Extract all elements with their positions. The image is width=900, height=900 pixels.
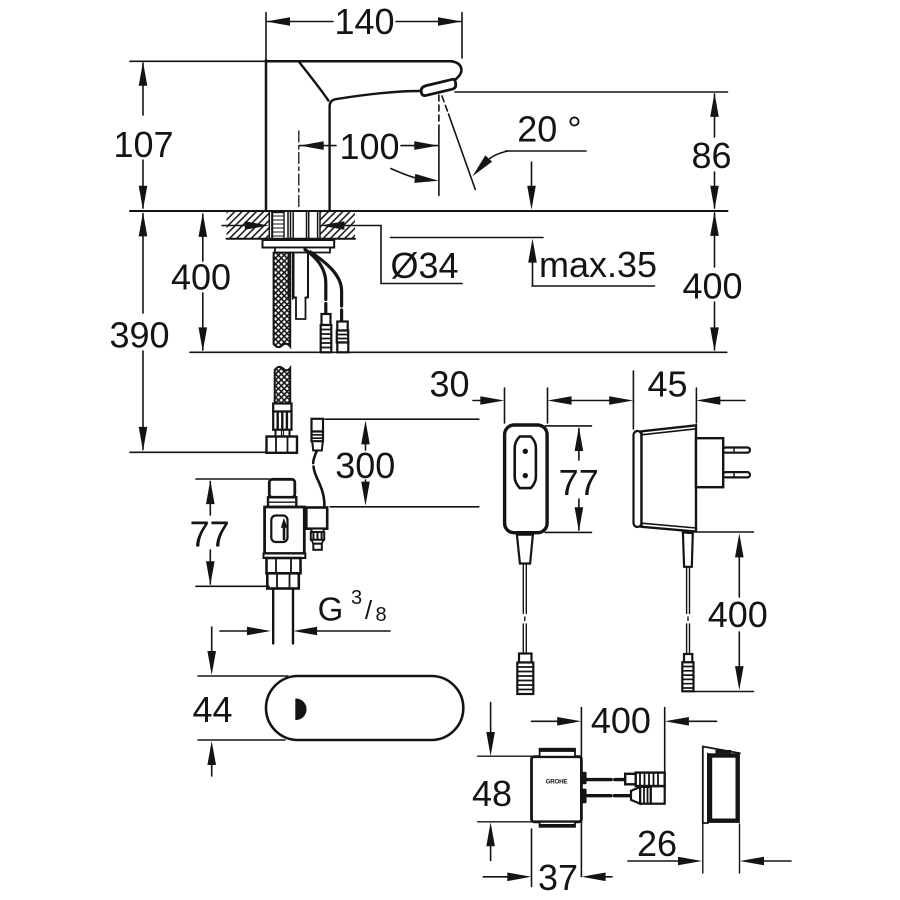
dimension 400 plug top reference xyxy=(697,531,754,533)
upper braided hose xyxy=(274,253,291,348)
box cable lower connector xyxy=(631,787,640,804)
cable connector right xyxy=(337,322,347,331)
dimension 77 top reference line xyxy=(196,478,269,480)
valve collar xyxy=(268,497,296,507)
faucet shank tube walls in hole xyxy=(268,212,270,239)
euro socket recess xyxy=(515,437,536,489)
faucet stem centerline xyxy=(298,131,300,210)
dimension 77 plug arrow down xyxy=(575,507,584,531)
dimension 86 line xyxy=(714,94,716,137)
dimension 140 extension line left xyxy=(265,13,267,60)
dimension 86 arrow up xyxy=(710,93,719,117)
dimension 30 line and arrows xyxy=(473,400,481,402)
20 degree leader arrow xyxy=(473,155,493,176)
lower braided hose xyxy=(275,367,291,404)
cable stub upper xyxy=(581,772,586,785)
dimension 37 line left xyxy=(483,876,508,878)
svg-text:390: 390 xyxy=(109,315,169,356)
valve main body xyxy=(265,507,305,554)
hose length reference line xyxy=(130,451,267,453)
valve adjuster knurl xyxy=(311,532,324,540)
box cable upper xyxy=(587,778,612,781)
power supply side view face plate xyxy=(634,431,642,527)
max35 upper arrow xyxy=(527,186,536,210)
side view cable neck xyxy=(683,532,693,566)
dimension 77 line xyxy=(209,482,211,516)
escutcheon oval top view xyxy=(266,676,463,740)
dimension 26 extension lines xyxy=(702,824,704,873)
dimension 140 arrow right xyxy=(438,17,462,26)
hose fitting neck xyxy=(276,430,290,437)
angle arc with arrow xyxy=(391,169,425,181)
side view cable xyxy=(687,567,690,614)
faucet body left edge xyxy=(265,60,268,211)
svg-text:30: 30 xyxy=(429,364,469,405)
dimension 77 plug bottom reference xyxy=(545,531,591,533)
svg-text:8: 8 xyxy=(375,604,386,626)
control box body xyxy=(532,757,582,822)
dimension 140 line xyxy=(266,21,333,23)
battery cover face xyxy=(710,756,738,821)
dimension 390 line xyxy=(142,214,144,314)
tailpiece tube xyxy=(294,253,309,298)
max35 lower arrow shaft xyxy=(532,262,534,286)
20 degree leader curve xyxy=(487,151,508,161)
counter slab bottom line xyxy=(227,238,356,240)
dimension 300 arrow down xyxy=(361,482,370,506)
dimension 400 cable arrow left xyxy=(557,717,581,726)
dimension 400 left line xyxy=(202,214,204,261)
faucet top line extended left xyxy=(130,60,266,62)
dimension 400 plug arrow down xyxy=(735,666,744,690)
side view back block xyxy=(696,438,723,487)
faucet aerator xyxy=(421,79,456,95)
plug pin lower xyxy=(723,472,750,477)
front view cable xyxy=(523,564,526,614)
cable stub lower xyxy=(581,789,586,804)
dimension 44 bottom reference line xyxy=(198,739,285,741)
G 3/8 dimension line xyxy=(220,630,247,632)
dimension 77 plug line xyxy=(578,429,580,461)
max35 lower arrow xyxy=(528,239,537,263)
valve flow arrow xyxy=(283,527,286,539)
valve top cap xyxy=(269,479,295,497)
spindle rod xyxy=(287,253,289,300)
svg-text:44: 44 xyxy=(192,689,232,730)
svg-text:400: 400 xyxy=(682,266,742,307)
dimension 390 arrow up xyxy=(139,212,148,236)
front view cable connector xyxy=(519,654,532,663)
dimension 48 bottom reference xyxy=(478,821,532,823)
threaded stud in hole xyxy=(273,213,285,239)
power supply front view body xyxy=(505,425,547,533)
valve side box xyxy=(306,508,327,529)
valve coupling nut xyxy=(267,573,299,588)
dimension 48 top reference xyxy=(478,755,532,757)
svg-text:20 °: 20 ° xyxy=(517,109,581,150)
battery cover tab xyxy=(715,750,731,753)
valve adjuster collar xyxy=(312,529,324,532)
side view body inner bottom line xyxy=(642,523,697,528)
dimension 400 plug line xyxy=(738,557,740,597)
dimension 100 arrow right xyxy=(414,141,438,150)
socket pin hole lower xyxy=(523,473,528,478)
mounting flange plate xyxy=(263,240,335,248)
shank inner lines xyxy=(287,212,289,239)
box cable upper connector xyxy=(625,774,636,785)
cable connector left xyxy=(322,314,331,325)
dimension 44 top reference line xyxy=(198,675,288,677)
svg-text:/: / xyxy=(365,595,373,625)
mounting plate lower xyxy=(275,248,330,253)
20 degree label underline xyxy=(506,150,587,152)
dimension 400 left arrow down xyxy=(199,327,208,351)
dimension 48 top shaft and arrow xyxy=(490,703,492,733)
water stream vertical reference line dashed xyxy=(438,95,440,129)
dimension 77 plug top reference xyxy=(545,425,591,427)
valve cable xyxy=(313,451,317,464)
valve adjuster tip xyxy=(313,544,322,550)
svg-text:26: 26 xyxy=(637,823,677,864)
dimension 300 bottom reference line xyxy=(330,506,479,508)
water stream 20 degree line dashed xyxy=(442,96,449,114)
hole diameter arrow left xyxy=(245,221,269,230)
hole diameter arrow right xyxy=(320,221,344,230)
front view cable neck xyxy=(517,535,533,564)
dimension 44 bottom arrow and shaft xyxy=(207,741,216,765)
dimension 77 bottom reference line xyxy=(196,585,269,587)
dimension 107 arrow up xyxy=(139,62,148,86)
dimension 107 arrow down xyxy=(139,186,148,210)
valve hex nut xyxy=(267,558,301,573)
svg-text:37: 37 xyxy=(538,857,578,898)
dimension 400 right line xyxy=(714,213,716,267)
svg-text:400: 400 xyxy=(591,700,651,741)
valve cable connector xyxy=(312,419,324,432)
dimension 86 arrow down xyxy=(710,186,719,210)
valve window xyxy=(271,516,287,543)
sensor window mark xyxy=(295,699,306,721)
svg-text:100: 100 xyxy=(339,126,399,167)
svg-text:107: 107 xyxy=(113,124,173,165)
dimension 100 line xyxy=(300,145,337,147)
dimension 400 cable line left shaft xyxy=(532,720,559,722)
svg-text:3: 3 xyxy=(351,587,362,609)
extension line box right edge xyxy=(580,708,582,877)
svg-text:400: 400 xyxy=(171,257,231,298)
dimension 400 left arrow up xyxy=(199,213,208,237)
sensor cable 1 xyxy=(305,250,326,314)
dimension 45 arrows xyxy=(609,396,633,405)
extension line connector end xyxy=(664,708,666,772)
dimension 400 plug arrow up xyxy=(735,533,744,557)
dimension 400 plug bottom reference xyxy=(694,691,754,693)
svg-text:45: 45 xyxy=(647,364,687,405)
dimension 400 right arrow down xyxy=(710,327,719,351)
water stream vertical reference line xyxy=(438,129,440,196)
dimension 390 arrow down xyxy=(139,427,148,451)
svg-text:Ø34: Ø34 xyxy=(390,245,458,286)
hose hex nut xyxy=(267,437,298,453)
max35 underline xyxy=(532,285,655,287)
svg-text:77: 77 xyxy=(559,462,599,503)
faucet neck diagonal xyxy=(299,62,328,100)
battery cover side wall xyxy=(702,747,704,824)
hole diameter arrow left shaft xyxy=(222,225,245,227)
svg-text:140: 140 xyxy=(334,1,394,42)
svg-text:48: 48 xyxy=(472,773,512,814)
box cable lower xyxy=(587,794,611,797)
dimension 77 plug arrow up xyxy=(575,427,584,451)
counter hatch left xyxy=(227,212,270,238)
dimension 107 line xyxy=(142,63,144,115)
control box top cap xyxy=(540,749,575,757)
counter underside reference line xyxy=(391,237,544,239)
dimension 400 right arrow up xyxy=(710,212,719,236)
svg-text:300: 300 xyxy=(335,445,395,486)
control box bottom cap xyxy=(540,822,575,827)
dimension 300 arrow up xyxy=(361,420,370,444)
dimension 48 bottom arrow and shaft xyxy=(486,822,495,846)
dimension 44 top shaft and arrow xyxy=(211,627,213,653)
dimension 140 extension line right xyxy=(461,13,463,59)
hole diameter leader xyxy=(344,226,462,284)
valve outlet pipe xyxy=(272,589,274,644)
faucet body right rounded corner and edge xyxy=(452,61,461,80)
valve adjuster chamfer xyxy=(312,540,324,544)
counter top line xyxy=(130,210,728,212)
svg-text:G: G xyxy=(318,591,344,628)
plug pin upper xyxy=(723,448,750,453)
svg-text:86: 86 xyxy=(691,135,731,176)
svg-text:max.35: max.35 xyxy=(539,244,657,285)
valve flange xyxy=(264,554,306,559)
dimension 30 extension lines xyxy=(504,388,506,423)
dimension 77 arrow up xyxy=(206,480,215,504)
faucet body top edge xyxy=(266,60,452,63)
svg-text:400: 400 xyxy=(708,594,768,635)
dimension 140 arrow left xyxy=(266,17,290,26)
side view cable connector xyxy=(684,654,692,662)
hose crimp ferrule xyxy=(273,412,291,430)
dimension 400 cable arrow right xyxy=(665,717,689,726)
faucet spout underside curve and stem right edge xyxy=(330,91,422,211)
svg-text:77: 77 xyxy=(190,514,230,555)
cable length reference line 400 xyxy=(190,351,727,353)
dimension 77 arrow down xyxy=(206,561,215,585)
dimension 26 line left xyxy=(628,860,679,862)
side view body inner top line xyxy=(642,429,697,435)
max35 upper arrow shaft xyxy=(531,162,533,186)
water stream 20 degree line xyxy=(449,114,476,190)
spout level reference line for 86 xyxy=(455,91,728,93)
dimension 100 arrow left xyxy=(300,141,324,150)
hose fitting band xyxy=(273,404,291,412)
svg-text:GROHE: GROHE xyxy=(546,779,568,786)
sensor cable 2 xyxy=(311,252,342,321)
socket pin hole upper xyxy=(523,449,528,454)
dimension 300 top reference line xyxy=(325,418,479,420)
side view body xyxy=(642,425,697,531)
counter hatch right xyxy=(320,212,355,238)
dimension 400 cable right shaft xyxy=(689,720,717,722)
dimension 45 extension lines xyxy=(632,371,634,429)
dimension 37 extension line xyxy=(531,829,533,887)
dimension 300 line xyxy=(365,444,367,450)
